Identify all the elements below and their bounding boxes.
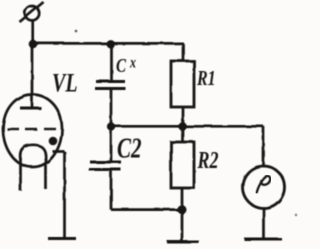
svg-text:C2: C2 — [117, 132, 142, 164]
svg-text:C: C — [116, 54, 127, 77]
svg-text:R2: R2 — [197, 146, 219, 173]
svg-text:R1: R1 — [196, 67, 216, 91]
svg-text:VL: VL — [52, 69, 78, 98]
svg-text:x: x — [129, 55, 136, 72]
